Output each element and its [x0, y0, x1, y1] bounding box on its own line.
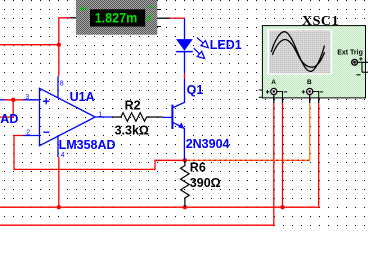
- ext trig plus mark: [359, 57, 362, 60]
- wire orange emitter node to scope B+: [185, 103, 310, 160]
- svg-text:Q1: Q1: [187, 83, 204, 97]
- scope trace channel A: [271, 32, 324, 72]
- wire feedback from inverting input pin 2 to emitter node: [14, 136, 185, 170]
- channel A minus mark: [284, 91, 288, 93]
- wire stub at left edge noninverting input: [0, 99, 4, 101]
- svg-text:B: B: [307, 79, 312, 86]
- svg-text:1: 1: [98, 111, 102, 118]
- wire vertical from meter to op-amp pin 8: [58, 18, 60, 76]
- op-amp pin 4 stub: [57, 135, 59, 157]
- ammeter plus mark: [80, 6, 86, 12]
- transistor Q1 emitter arrow: [178, 123, 184, 129]
- op-amp pin 2 stub: [23, 135, 40, 137]
- LED1 triangle: [176, 39, 193, 51]
- LED1 emission arrow upper: [197, 38, 208, 48]
- junction rail at scope A-: [280, 205, 284, 209]
- svg-text:R6: R6: [190, 160, 206, 174]
- junction rail at R6 bottom: [183, 205, 187, 209]
- channel B plus mark: [302, 90, 306, 94]
- svg-text:U1A: U1A: [70, 90, 95, 104]
- transistor Q1 base bar: [171, 105, 173, 129]
- channel B terminal: [307, 88, 313, 94]
- svg-text:390Ω: 390Ω: [190, 176, 221, 190]
- LED1 emission arrow lower: [194, 48, 205, 58]
- svg-text:3: 3: [25, 94, 29, 101]
- ext trig minus mark: [357, 74, 361, 76]
- transistor Q1 base stub: [163, 116, 172, 118]
- wire op-amp pin 4 to ground rail: [58, 157, 60, 207]
- transistor Q1 collector lead: [173, 78, 184, 107]
- op-amp U1A body: [40, 88, 96, 145]
- LED1 anode stub: [184, 18, 186, 39]
- junction emitter node at R6 top: [183, 158, 187, 162]
- op-amp pin 3 stub: [23, 99, 40, 101]
- svg-text:Ext Trig: Ext Trig: [337, 50, 363, 57]
- oscilloscope screen bezel: [268, 29, 333, 75]
- scope left edge ticks: [259, 90, 263, 97]
- channel B minus mark: [320, 91, 324, 93]
- scope bottom pin stubs: [274, 95, 319, 103]
- wire ground rail upper to scope B-: [0, 103, 319, 207]
- svg-text:2: 2: [26, 130, 30, 137]
- ammeter probe display body: [76, 0, 157, 35]
- ammeter probe readout 1.827m: [90, 9, 145, 26]
- oscilloscope screen: [269, 30, 330, 73]
- resistor R2: [112, 113, 163, 122]
- oscilloscope XSC1 body: [262, 26, 365, 98]
- channel A minus pin lead: [277, 92, 283, 98]
- junction input node: [11, 98, 15, 102]
- wire ammeter right pin stub: [157, 17, 170, 19]
- ext trig terminal: [352, 59, 358, 65]
- resistor R6: [181, 160, 190, 207]
- wire ammeter to LED1 anode: [170, 17, 185, 19]
- svg-text:3.3kΩ: 3.3kΩ: [115, 124, 149, 138]
- scope trace channel B: [272, 39, 324, 67]
- svg-text:XSC1: XSC1: [302, 14, 339, 29]
- wire LED1 cathode to Q1 collector: [184, 73, 186, 79]
- ammeter current arrow: [146, 14, 152, 22]
- ammeter minus mark: [149, 6, 154, 8]
- svg-text:AD: AD: [0, 112, 18, 126]
- wire to ammeter left terminal: [58, 17, 70, 19]
- svg-text:2N3904: 2N3904: [186, 137, 230, 151]
- svg-text:4: 4: [61, 152, 65, 159]
- svg-text:8: 8: [60, 81, 64, 88]
- wire ground rail lower to scope A+: [0, 103, 274, 225]
- channel B minus pin lead: [313, 92, 319, 98]
- ext trig pin leads: [358, 62, 368, 72]
- svg-text:LM358AD: LM358AD: [59, 138, 116, 152]
- op-amp pin 1 output stub: [95, 116, 112, 118]
- channel A terminal: [271, 88, 277, 94]
- svg-text:R2: R2: [125, 99, 141, 113]
- wire V+ net horizontal from left edge: [0, 44, 59, 46]
- ammeter right edge ticks: [157, 10, 161, 27]
- transistor Q1 emitter lead: [173, 123, 184, 161]
- op-amp pin 8 stub: [57, 76, 59, 98]
- wire branch from input node to left edge: [0, 100, 13, 117]
- junction V+ node: [57, 43, 61, 47]
- svg-text:1.827m: 1.827m: [95, 10, 138, 25]
- wire noninverting input pin 3: [4, 99, 23, 101]
- svg-text:LED1: LED1: [210, 38, 242, 52]
- LED1 cathode bar: [176, 51, 193, 53]
- LED1 cathode stub: [184, 52, 186, 73]
- wire ammeter left pin stub: [70, 17, 77, 19]
- channel A plus mark: [266, 90, 270, 94]
- junction rail at pin4 wire: [57, 205, 61, 209]
- svg-text:A: A: [271, 79, 276, 86]
- wire scope A- down to rail: [282, 103, 284, 207]
